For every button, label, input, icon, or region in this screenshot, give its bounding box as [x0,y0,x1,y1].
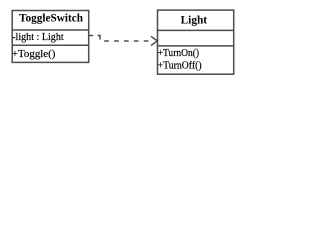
dependency dashed connector ToggleSwitch -> Light [89,36,158,46]
wire dash 4 [114,40,119,42]
svg-text:ToggleSwitch: ToggleSwitch [19,11,83,25]
wire dash 5 [124,40,129,42]
wire dash 6 [134,40,139,42]
svg-text:+Toggle(): +Toggle() [12,48,56,60]
wire dash 2 (elbow corner) [98,36,100,40]
svg-text:-light : Light: -light : Light [12,31,64,43]
wire dash 7 [144,40,149,42]
class ToggleSwitch box [12,11,90,63]
svg-text:+TurnOn(): +TurnOn() [158,47,200,59]
svg-text:+TurnOff(): +TurnOff() [158,60,202,72]
open arrowhead at Light edge [151,36,157,45]
svg-text:Light: Light [181,12,208,26]
class Light box [157,10,235,74]
wire dash 1 (at ToggleSwitch edge) [89,35,94,37]
wire dash 3 [104,40,109,42]
